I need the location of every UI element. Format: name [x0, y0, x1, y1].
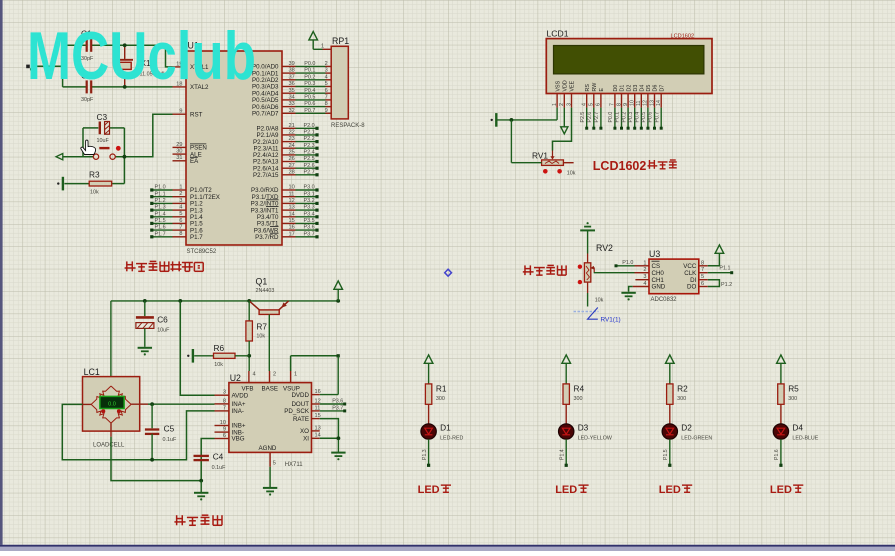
svg-text:8: 8 [223, 398, 226, 404]
svg-text:D2: D2 [681, 423, 692, 433]
label LED灯 under D2 [659, 484, 692, 496]
pin RW (5) of LCD1 [587, 83, 598, 130]
pin INB+ (10) of U2 [215, 420, 246, 430]
power arrow down LCD VDD [561, 108, 568, 134]
resistor R6 10k [194, 343, 249, 368]
ground terminal LCD VSS [495, 113, 497, 127]
pin D6 (13) of LCD1 [648, 85, 659, 130]
pin P2.0/A8 (21) stub with net label P2.0 [256, 123, 318, 133]
pin P1.2 (3) with net label P1.2 [150, 198, 203, 208]
svg-text:D7: D7 [659, 85, 665, 92]
svg-text:LCD1602: LCD1602 [671, 33, 695, 39]
svg-text:6: 6 [596, 103, 602, 106]
svg-text:LED-BLUE: LED-BLUE [792, 435, 818, 441]
svg-text:P0.2: P0.2 [304, 74, 315, 80]
svg-text:D4: D4 [640, 85, 646, 92]
svg-text:30pF: 30pF [81, 97, 94, 103]
svg-text:5: 5 [589, 103, 595, 106]
svg-text:LED: LED [418, 484, 440, 496]
loadcell display window [100, 396, 124, 408]
svg-text:4: 4 [582, 103, 588, 106]
svg-text:12: 12 [643, 100, 649, 106]
svg-text:P0.7/AD7: P0.7/AD7 [252, 111, 279, 118]
pin P1.5 (6) with net label P1.5 [150, 218, 203, 228]
pin P1.3 (4) with net label P1.3 [150, 205, 203, 215]
pin CH1 (3) of U3 [635, 274, 664, 284]
pin P1.7 (8) with net label P1.7 [150, 231, 203, 241]
pin D1 (8) of LCD1 [615, 85, 626, 130]
wire D1 cathode to P1.3 [422, 439, 430, 467]
svg-text:P0.7: P0.7 [654, 112, 660, 123]
node crystal rail junction [61, 64, 65, 68]
pin EA (31) [173, 155, 200, 165]
svg-text:P2.4: P2.4 [304, 150, 315, 156]
pin XTAL1 (19) [173, 61, 210, 71]
svg-text:C3: C3 [97, 112, 108, 122]
svg-text:CLK: CLK [684, 270, 697, 277]
label LED灯 under D3 [555, 484, 588, 496]
svg-text:2N4403: 2N4403 [256, 288, 275, 294]
svg-text:U2: U2 [230, 373, 241, 383]
svg-text:ADC0832: ADC0832 [651, 297, 678, 303]
wire PD_SCK to P3.7 [320, 405, 347, 412]
svg-text:P0.7: P0.7 [304, 108, 315, 114]
wire DVDD riser [320, 356, 339, 395]
resistor R3 [64, 170, 124, 196]
svg-text:13: 13 [289, 205, 295, 211]
svg-text:CH0: CH0 [652, 270, 665, 277]
svg-text:7: 7 [325, 95, 328, 101]
capacitor C4 0.1uF [194, 452, 227, 472]
title text 单片机最小系统 [125, 261, 204, 271]
led D2 LED-GREEN [662, 404, 712, 441]
pin P3.7/RD (17) stub with net label P3.7 [255, 231, 318, 241]
pin INB- (9) of U2 [215, 427, 244, 437]
svg-text:3: 3 [325, 68, 328, 74]
svg-text:RATE: RATE [293, 416, 309, 423]
svg-text:E: E [599, 88, 605, 92]
loadcell bridge resistors [91, 386, 131, 423]
svg-text:1: 1 [294, 372, 297, 378]
node VSUP junction [337, 354, 340, 357]
svg-text:D6: D6 [653, 85, 659, 92]
wire DOUT to P3.6 [320, 398, 347, 405]
node RATE-XI junction [337, 436, 341, 440]
pin P0.2/AD2 (37) wire to RP1 with net label P0.2 [252, 74, 331, 84]
svg-text:7: 7 [179, 225, 182, 231]
svg-text:AGND: AGND [259, 445, 277, 452]
svg-text:4: 4 [643, 281, 646, 287]
transistor Q1 2N4403 [249, 277, 288, 372]
svg-text:R2: R2 [677, 383, 688, 393]
wire D4 cathode to P1.6 [774, 439, 782, 467]
svg-text:32: 32 [289, 108, 295, 114]
svg-text:0.0: 0.0 [108, 401, 116, 407]
svg-text:P3.4: P3.4 [304, 211, 315, 217]
svg-text:2: 2 [179, 191, 182, 197]
svg-text:P0.0: P0.0 [608, 112, 614, 123]
pin D4 (11) of LCD1 [635, 85, 646, 130]
svg-text:21: 21 [289, 123, 295, 129]
svg-text:P0.1: P0.1 [304, 68, 315, 74]
svg-text:1: 1 [552, 103, 558, 106]
svg-text:P3.7: P3.7 [332, 405, 343, 411]
pin XO (13) of U2 [300, 425, 321, 435]
svg-text:7: 7 [701, 267, 704, 273]
pin P2.4/A12 (25) stub with net label P2.4 [253, 150, 319, 160]
node crystal bottom junction [123, 85, 127, 89]
svg-text:P3.6: P3.6 [304, 225, 315, 231]
resistor pack RP1 RESPACK-8 [331, 36, 365, 129]
svg-text:0.1uF: 0.1uF [212, 465, 226, 471]
pin P2.5/A13 (26) stub with net label P2.5 [253, 156, 319, 166]
pin VSUP (1) of U2 [291, 371, 298, 383]
pin P1.0/T2 (1) with net label P1.0 [150, 184, 212, 194]
svg-text:D3: D3 [633, 85, 639, 92]
svg-text:PD_SCK: PD_SCK [284, 408, 310, 415]
svg-text:5: 5 [701, 274, 704, 280]
svg-text:10k: 10k [567, 171, 576, 177]
svg-text:LED: LED [555, 484, 577, 496]
node rail VCC junction [336, 299, 340, 303]
svg-text:15: 15 [289, 218, 295, 224]
svg-text:P0.1: P0.1 [615, 112, 621, 123]
svg-text:VSS: VSS [555, 80, 561, 91]
svg-text:P2.3: P2.3 [304, 143, 315, 149]
svg-text:10k: 10k [214, 362, 223, 368]
svg-text:P0.2: P0.2 [621, 112, 627, 123]
pin 1 of RP1 with VCC power arrow [309, 32, 331, 50]
pin P0.4/AD4 (35) wire to RP1 with net label P0.4 [252, 88, 331, 98]
svg-text:10k: 10k [256, 334, 265, 340]
svg-text:R5: R5 [788, 383, 799, 393]
wire D2 cathode to P1.5 [663, 439, 671, 467]
pin AGND (5) of U2 [270, 452, 276, 487]
svg-text:P3.3: P3.3 [304, 205, 315, 211]
wire XTAL1 net (C1 to XTAL1) [91, 45, 173, 67]
window bottom border bar [0, 545, 895, 551]
svg-text:6: 6 [325, 88, 328, 94]
svg-text:3: 3 [179, 198, 182, 204]
wire RATE / XI to ground [320, 419, 339, 452]
power arrow above R1 [424, 355, 433, 384]
svg-text:P1.2: P1.2 [721, 282, 732, 288]
svg-text:13: 13 [649, 100, 655, 106]
label 光照调节 [523, 265, 566, 275]
svg-text:EA: EA [190, 158, 199, 165]
svg-text:300: 300 [788, 396, 797, 402]
svg-text:P2.7/A15: P2.7/A15 [253, 172, 279, 179]
svg-text:P0.3: P0.3 [304, 81, 315, 87]
pin P2.2/A10 (23) stub with net label P2.2 [253, 136, 319, 146]
svg-text:37: 37 [289, 74, 295, 80]
power arrow above R2 [666, 355, 675, 384]
overline on CS pin [652, 260, 660, 262]
svg-text:22: 22 [289, 130, 295, 136]
pin CH0 (2) of U3 [635, 267, 665, 277]
wire VCC to power arrow [708, 245, 724, 266]
svg-text:14: 14 [656, 100, 662, 106]
svg-text:10: 10 [289, 185, 295, 191]
reset button [93, 148, 115, 159]
ground terminal left of R3 [62, 177, 64, 191]
pin DO (6) of U3 [687, 281, 708, 291]
pin P1.4 (5) with net label P1.4 [150, 211, 203, 221]
svg-text:P1.7: P1.7 [190, 234, 203, 241]
resistor R7 10k [246, 301, 267, 371]
svg-text:2: 2 [273, 372, 276, 378]
pin P2.7/A15 (28) stub with net label P2.7 [253, 169, 319, 179]
ground terminal left of crystal rail [26, 65, 30, 71]
label LCD1602显示屏 [593, 159, 677, 173]
svg-text:28: 28 [289, 169, 295, 175]
svg-text:C6: C6 [157, 315, 168, 325]
svg-text:R4: R4 [574, 383, 585, 393]
svg-text:8: 8 [616, 103, 622, 106]
pin DOUT (12) of U2 [291, 398, 320, 408]
svg-text:2: 2 [643, 267, 646, 273]
pin GND (4) of U3 [633, 281, 666, 291]
svg-text:INA+: INA+ [232, 401, 246, 408]
svg-text:P1.0: P1.0 [155, 185, 166, 191]
pin P0.6/AD6 (33) wire to RP1 with net label P0.6 [252, 101, 331, 111]
node R6/R7 junction [247, 354, 251, 358]
mouse hand cursor icon [81, 140, 96, 154]
svg-text:39: 39 [289, 61, 295, 67]
svg-text:33: 33 [289, 101, 295, 107]
pin P1.6 (7) with net label P1.6 [150, 225, 203, 235]
pin VEE (3) of LCD1 [566, 80, 575, 107]
svg-text:24: 24 [289, 143, 295, 149]
svg-text:31: 31 [176, 155, 182, 161]
svg-text:P2.5: P2.5 [304, 156, 315, 162]
svg-text:10: 10 [220, 420, 226, 426]
led D1 LED-RED [421, 404, 464, 441]
pin D2 (9) of LCD1 [621, 85, 632, 130]
pin E (6) of LCD1 [594, 88, 605, 130]
svg-text:P2.1: P2.1 [304, 130, 315, 136]
wire LCD VSS to ground [498, 108, 558, 120]
ground below C4 junction [194, 481, 208, 501]
power arrow above R5 [777, 355, 786, 384]
svg-text:36: 36 [289, 81, 295, 87]
capacitor C6 (10uF polarized) [136, 301, 170, 347]
loadcell red dots [101, 409, 105, 413]
svg-text:LOADCELL: LOADCELL [93, 442, 125, 448]
svg-text:9: 9 [223, 427, 226, 433]
svg-text:D3: D3 [578, 423, 589, 433]
svg-text:RESPACK-8: RESPACK-8 [331, 123, 365, 129]
pin P0.7/AD7 (32) wire to RP1 with net label P0.7 [252, 108, 331, 118]
svg-text:8: 8 [701, 260, 704, 266]
op chip U1 STC89C52 body [186, 41, 282, 256]
pin CS (1) of U3 [635, 260, 661, 270]
wire DI/DO join to P1.2 [708, 280, 732, 289]
resistor R1 300 [425, 383, 446, 404]
pin RST (9) [173, 109, 203, 119]
svg-text:2: 2 [325, 61, 328, 67]
svg-text:P1.5: P1.5 [155, 218, 166, 224]
svg-text:6: 6 [179, 218, 182, 224]
svg-text:P0.0: P0.0 [304, 61, 315, 67]
wire RST net [63, 114, 173, 183]
pin D0 (7) of LCD1 [608, 85, 619, 130]
pin VCC (8) of U3 [683, 260, 708, 270]
ground below U3 [621, 292, 635, 294]
svg-text:P1.1: P1.1 [155, 191, 166, 197]
svg-text:P2.7: P2.7 [594, 112, 600, 123]
wire VSUP net [291, 356, 339, 371]
hx711 chip U2 body [229, 373, 312, 468]
label 称重模块 [174, 515, 222, 525]
svg-text:DVDD: DVDD [291, 392, 309, 399]
svg-text:P1.2: P1.2 [155, 198, 166, 204]
svg-text:1: 1 [321, 44, 324, 50]
wire XTAL2 net (C2 to XTAL2) [91, 86, 173, 88]
wire AVDD to rail [180, 301, 214, 395]
capacitor C5 0.1uF [145, 404, 177, 460]
svg-text:XI: XI [303, 436, 309, 443]
svg-text:38: 38 [289, 68, 295, 74]
led D3 LED-YELLOW [559, 404, 612, 441]
svg-text:1: 1 [643, 260, 646, 266]
wire CS to P1.0 [615, 260, 635, 267]
pin PD_SCK (11) of U2 [284, 405, 320, 415]
svg-text:R6: R6 [214, 343, 225, 353]
pin P0.0/AD0 (39) wire to RP1 with net label P0.0 [252, 61, 331, 71]
svg-text:RST: RST [190, 111, 203, 118]
svg-text:9: 9 [623, 103, 629, 106]
svg-text:11: 11 [315, 405, 321, 411]
svg-text:VEE: VEE [570, 80, 576, 91]
svg-text:P1.1: P1.1 [719, 266, 730, 272]
svg-text:LED-YELLOW: LED-YELLOW [578, 435, 612, 441]
ground below XI [331, 452, 345, 454]
svg-text:LC1: LC1 [84, 367, 100, 377]
ground below AGND [263, 487, 277, 489]
svg-text:P0.5: P0.5 [641, 112, 647, 123]
pin P2.6/A14 (27) stub with net label P2.6 [253, 163, 319, 173]
svg-text:10uF: 10uF [157, 328, 170, 334]
pin P0.3/AD3 (36) wire to RP1 with net label P0.3 [252, 81, 331, 91]
potentiometer RV2 10k [584, 243, 613, 307]
node rail Q1 junction [247, 299, 251, 303]
pin P3.1/TXD (11) stub with net label P3.1 [252, 191, 319, 201]
svg-text:VDD: VDD [563, 80, 569, 91]
resistor R2 300 [667, 383, 688, 404]
loadcell LC1 body [83, 367, 140, 448]
svg-text:RP1: RP1 [332, 36, 349, 46]
pin P3.2/INT0 (12) stub with net label P3.2 [251, 198, 319, 208]
pin D7 (14) of LCD1 [654, 85, 665, 130]
svg-text:P2.7: P2.7 [304, 169, 315, 175]
svg-text:12: 12 [289, 198, 295, 204]
svg-text:AVDD: AVDD [232, 392, 249, 399]
pin XTAL2 (18) [173, 81, 210, 91]
svg-text:P1.4: P1.4 [559, 449, 565, 460]
RV1 adjust red dots [543, 169, 548, 174]
svg-text:RV2: RV2 [596, 243, 613, 253]
origin marker blue diamond [445, 269, 452, 276]
pin P0.5/AD5 (34) wire to RP1 with net label P0.5 [252, 95, 331, 105]
svg-text:LCD1: LCD1 [547, 29, 569, 39]
wire LCD VEE to RV1 wiper [553, 108, 572, 151]
capacitor C3 (10uF polarized) [83, 112, 124, 144]
capacitor C1 [81, 29, 94, 63]
node rail AVDD junction [178, 299, 182, 303]
pin VBG (6) of U2 [215, 433, 245, 443]
svg-text:23: 23 [289, 136, 295, 142]
pin ALE (30) [173, 149, 202, 159]
svg-text:4: 4 [253, 372, 256, 378]
svg-text:300: 300 [436, 396, 445, 402]
svg-text:10k: 10k [595, 298, 604, 304]
svg-text:10uF: 10uF [97, 138, 110, 144]
svg-text:P1.6: P1.6 [774, 449, 780, 460]
svg-text:P2.2: P2.2 [304, 136, 315, 142]
svg-text:3: 3 [643, 274, 646, 280]
svg-text:LED-GREEN: LED-GREEN [681, 435, 712, 441]
svg-text:P2.6: P2.6 [587, 112, 593, 123]
wire crystal left rail [32, 45, 87, 87]
svg-text:HX711: HX711 [285, 462, 304, 468]
svg-text:25: 25 [289, 150, 295, 156]
svg-text:U3: U3 [649, 249, 660, 259]
pin RATE (15) of U2 [293, 413, 321, 423]
svg-text:INA-: INA- [232, 408, 244, 415]
svg-text:16: 16 [315, 389, 321, 395]
svg-text:P0.4: P0.4 [304, 88, 315, 94]
svg-text:4: 4 [325, 74, 328, 80]
svg-text:16: 16 [289, 225, 295, 231]
svg-text:6: 6 [701, 281, 704, 287]
pin D5 (12) of LCD1 [641, 85, 652, 130]
window left border strip [0, 0, 3, 551]
wire D3 cathode to P1.4 [559, 439, 567, 467]
svg-text:P3.0: P3.0 [304, 185, 315, 191]
wire INA- loop (LC1 left pin) [62, 404, 214, 459]
voltage probe RV1(1) [574, 308, 621, 324]
pin P2.1/A9 (22) stub with net label P2.1 [256, 130, 318, 140]
svg-text:P0.6: P0.6 [648, 112, 654, 123]
button toggle red dot [116, 146, 121, 151]
svg-text:5: 5 [179, 211, 182, 217]
svg-text:P2.0: P2.0 [304, 123, 315, 129]
svg-text:D0: D0 [613, 85, 619, 92]
svg-text:LED: LED [659, 484, 681, 496]
svg-text:P3.7: P3.7 [304, 231, 315, 237]
svg-text:30: 30 [176, 149, 182, 155]
wire CLK to P1.1 [708, 266, 733, 275]
svg-text:RW: RW [592, 83, 598, 92]
svg-text:P3.5: P3.5 [304, 218, 315, 224]
pin PSEN (29) [173, 142, 207, 152]
svg-text:3: 3 [566, 103, 572, 106]
svg-text:D1: D1 [620, 85, 626, 92]
svg-text:300: 300 [677, 396, 686, 402]
svg-text:9: 9 [325, 108, 328, 114]
wire LC1 right pin to INA+ [131, 403, 214, 405]
wire top supply rail [111, 301, 338, 377]
svg-text:35: 35 [289, 88, 295, 94]
svg-text:14: 14 [289, 211, 295, 217]
svg-text:3: 3 [223, 390, 226, 396]
svg-text:P3.6: P3.6 [332, 398, 343, 404]
potentiometer RV1 10k [511, 120, 575, 177]
svg-text:GND: GND [652, 284, 666, 291]
svg-text:XO: XO [300, 428, 309, 435]
pin P2.3/A11 (24) stub with net label P2.3 [254, 143, 319, 153]
